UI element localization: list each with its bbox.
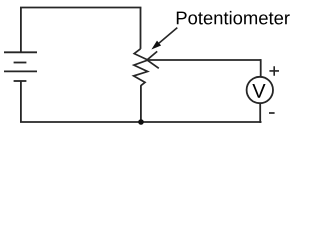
voltmeter M1 bbox=[247, 77, 273, 103]
potentiometer R1 bbox=[134, 49, 148, 86]
wire voltmeter top lead bbox=[260, 59, 262, 76]
polarity minus bbox=[269, 112, 275, 114]
wire wiper to voltmeter bbox=[147, 59, 261, 61]
wire battery top lead bbox=[20, 8, 22, 53]
wiper arrow bbox=[147, 51, 159, 68]
wire potentiometer bottom lead bbox=[140, 85, 142, 122]
wire top bbox=[20, 7, 141, 9]
node junction bbox=[138, 119, 144, 125]
wire bottom bbox=[20, 121, 262, 123]
annotation arrow bbox=[151, 28, 177, 50]
wire potentiometer top lead bbox=[140, 8, 142, 49]
battery B1 bbox=[4, 52, 37, 81]
wire battery bottom lead bbox=[20, 81, 22, 122]
label Potentiometer bbox=[177, 11, 290, 25]
voltmeter V symbol bbox=[252, 84, 265, 98]
polarity plus bbox=[269, 66, 279, 76]
wire voltmeter bottom lead bbox=[259, 104, 261, 123]
